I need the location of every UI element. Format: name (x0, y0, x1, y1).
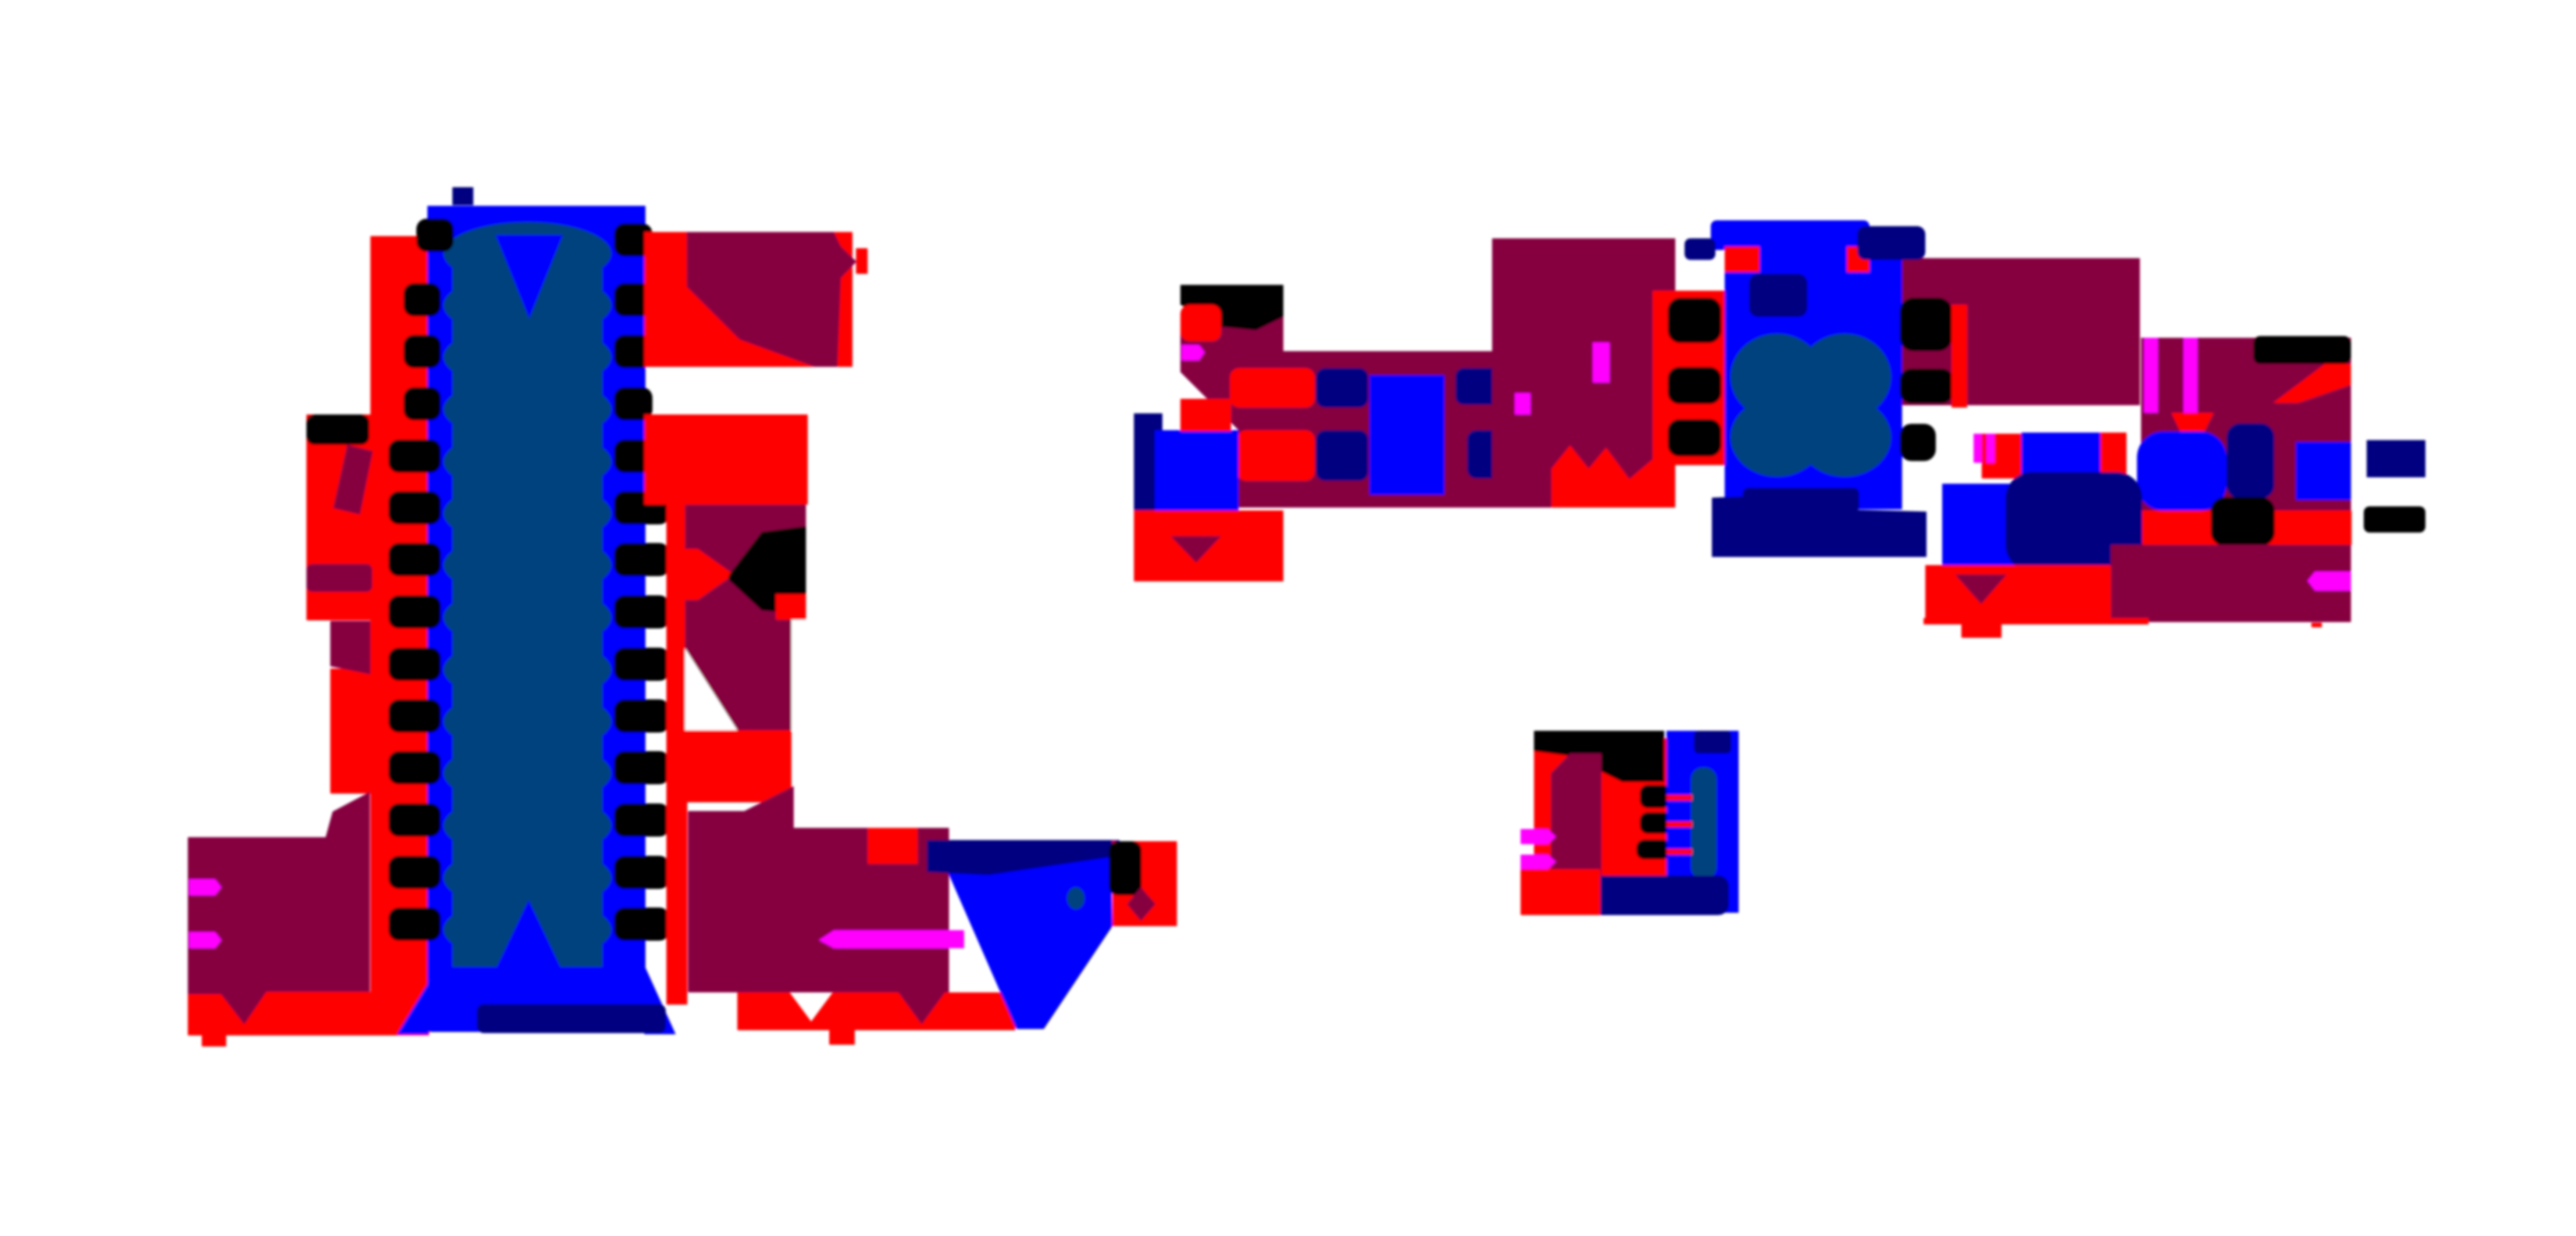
red trapezoid below tie (2171, 413, 2214, 433)
IC2 left pin number 2 (1668, 367, 1721, 404)
net label IN (black) left of U1 (306, 415, 369, 445)
black label under blob (2211, 497, 2275, 546)
left maroon label block (330, 621, 370, 674)
wire field right of U1 top (644, 232, 852, 367)
cap magenta ticks (1974, 434, 1982, 463)
maroon triangle right (2309, 607, 2338, 622)
left flank maroon label (188, 792, 370, 1035)
wire stub row6 right (666, 549, 734, 600)
IC U2 top red stub 2 (1847, 247, 1869, 272)
connector net arrow 1 (1521, 829, 1556, 844)
red wire column right of IC2 (1951, 305, 1967, 408)
red notch right flank (868, 828, 918, 864)
net arrow left 1 (189, 879, 222, 895)
mid net arrow magenta (1182, 345, 1205, 360)
IC U1 pin-name text column (444, 222, 611, 967)
big maroon net label top right (1890, 258, 2140, 405)
blue wire bottom left (1942, 484, 2037, 570)
mid red value text row1 (1230, 368, 1315, 408)
mid maroon field (1180, 238, 1537, 508)
IC2 right pin number 1 (1900, 298, 1952, 351)
connector red pin line 3 (1667, 849, 1692, 855)
wire column right of U1 (666, 505, 687, 1005)
blue blob mid right (2137, 431, 2227, 510)
mid red value text row2 (1237, 430, 1315, 481)
red wire band right (1945, 510, 2352, 545)
navy giant label bottom (2006, 472, 2142, 571)
wire notch in black label (776, 594, 806, 620)
connector navy text top (1694, 731, 1731, 753)
wire tick right (856, 248, 868, 274)
resistor body blue (1369, 375, 1444, 495)
mid navy ref text row1 (1316, 368, 1368, 408)
cap red column (2100, 433, 2127, 478)
mid navy blob row2 (1467, 430, 1510, 478)
right cluster maroon field (1492, 238, 1675, 508)
bottom-center black tick (1109, 841, 1141, 895)
IC U2 inner text top (1749, 274, 1807, 317)
IC U1 body bottom-left flare (397, 983, 429, 1034)
navy blob mid right (2227, 423, 2274, 499)
left comp blue body (1155, 430, 1239, 512)
IC2 right pin number 2 (1900, 369, 1953, 403)
red wire line bottom (1924, 618, 2149, 624)
IC U1 left pin numbers (388, 219, 454, 941)
wire left bus of U1 (330, 236, 429, 1035)
right cluster red zigzag wire (1551, 445, 1653, 508)
connector black top label (1534, 731, 1664, 782)
connector red pin line 2 (1667, 821, 1692, 827)
maroon V notch 2 (898, 992, 945, 1024)
bottom-center blue junction blob (948, 844, 1112, 1029)
red wire column to IC2 (1653, 291, 1725, 508)
mid cluster red blob (1180, 305, 1221, 341)
IC U2 inner text bottom (1743, 488, 1859, 512)
blue tick right (2296, 442, 2351, 500)
IC U2 corner text (1685, 238, 1715, 260)
right cluster magenta bar (1593, 342, 1610, 383)
wire field left of U1 (306, 415, 372, 620)
left comp navy bar (1134, 413, 1162, 537)
IC U2 top red stub 1 (1725, 247, 1760, 272)
red angled wire right (2273, 364, 2351, 403)
GND symbol right (1955, 574, 2007, 604)
connector red bottom (1521, 869, 1600, 915)
connector pin blob 1 (1640, 785, 1670, 808)
IC2 right pin number 3 (1900, 424, 1936, 461)
mid magenta tick (1517, 395, 1529, 413)
cap red stub (1982, 434, 2021, 478)
black label right of U1 (729, 526, 806, 614)
wire field right of U1 mid (644, 415, 808, 505)
IC U1 body notch bottom (494, 900, 563, 972)
red dash bottom (2311, 623, 2322, 627)
net arrow left 2 (189, 932, 222, 948)
IC U2 top text blob (1711, 220, 1869, 250)
IC U2 pin-name X blob (1731, 334, 1891, 477)
net arrow right (magenta bar) (819, 930, 964, 948)
right flank maroon label (688, 786, 949, 992)
connector maroon bar (1551, 753, 1601, 891)
mid navy ref text row2 (1316, 430, 1368, 481)
IC U1 value label (477, 1004, 666, 1033)
maroon field bottom right (2111, 545, 2351, 622)
right red stub bottom (829, 1030, 855, 1045)
IC U1 body bottom-right flare (644, 965, 676, 1034)
red box bottom (1961, 618, 2001, 638)
navy box far right (2367, 440, 2425, 477)
net tie magenta bar 1 (2144, 338, 2158, 413)
connector pin blob 3 (1636, 840, 1670, 859)
connector net arrow 2 (1521, 855, 1556, 869)
right cluster magenta small (1515, 393, 1530, 415)
connector pin blob 2 (1640, 812, 1672, 834)
bottom-center navy label (927, 840, 1119, 875)
IC U2 body (1725, 247, 1902, 509)
GND symbol mid (1171, 536, 1221, 563)
maroon field right mid (2141, 338, 2351, 557)
left flank red wire bottom (188, 992, 372, 1035)
left comp red wire bottom (1155, 510, 1239, 537)
wire field right of U1 lower (686, 730, 791, 802)
right flank red wire bottom (737, 992, 1015, 1030)
IC U1 right pin numbers (614, 223, 670, 941)
label parallelogram left (333, 445, 373, 515)
connector body blue (1667, 731, 1739, 913)
big net label right-top of U1 (687, 232, 857, 367)
IC U2 value label (1712, 494, 1926, 557)
maroon label block right (685, 505, 806, 730)
cap blue plate (2021, 433, 2100, 478)
red field below left comp (1134, 510, 1283, 581)
IC2 left pin number 3 (1668, 419, 1721, 456)
black label right (2253, 336, 2351, 364)
connector teal column (1691, 767, 1717, 879)
left maroon label row (306, 564, 372, 592)
mid cluster black label (1180, 285, 1283, 330)
IC U1 body notch top (495, 235, 563, 319)
connector navy bottom label (1587, 876, 1729, 915)
left comp red wire top (1180, 399, 1231, 431)
connector red pin line 1 (1667, 795, 1692, 801)
mid navy text right (1455, 368, 1539, 405)
bottom-center teal dot (1067, 887, 1084, 909)
bottom-center maroon diamond (1127, 887, 1155, 921)
black tick far right (2364, 506, 2425, 533)
net tie magenta bar 2 (2183, 338, 2197, 413)
IC U1 reference tick (452, 187, 473, 205)
net arrow magenta right (2307, 571, 2351, 591)
left red stub bottom (202, 1035, 226, 1046)
IC2 left pin number 1 (1668, 298, 1721, 343)
red field gnd right (1925, 565, 2111, 618)
IC U1 body (427, 206, 645, 1032)
IC U2 ref text (1857, 226, 1925, 260)
connector red field (1534, 738, 1675, 891)
maroon line bottom (2149, 618, 2349, 621)
bottom-center red wire block (1112, 841, 1177, 926)
